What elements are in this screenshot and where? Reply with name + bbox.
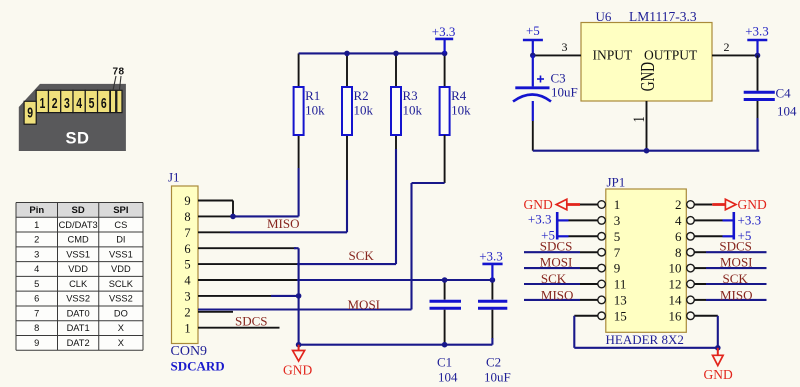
power +3.3 (C2) [479, 248, 503, 280]
node pins8-9 junction [230, 214, 236, 220]
svg-text:J1: J1 [168, 170, 180, 185]
SD card icon [19, 67, 126, 152]
svg-text:SCK: SCK [349, 248, 375, 263]
svg-text:MISO: MISO [267, 216, 300, 231]
svg-text:R3: R3 [403, 88, 418, 103]
svg-text:104: 104 [777, 103, 797, 118]
wire ground rail to C1 C2 [299, 344, 493, 346]
svg-text:VDD: VDD [68, 264, 88, 274]
svg-text:9: 9 [614, 261, 621, 276]
node gnd rail junction [644, 148, 650, 154]
ground symbol JP1 [713, 348, 724, 366]
svg-text:10: 10 [669, 261, 682, 276]
wire JP1 pin6 +5 [694, 235, 734, 237]
svg-text:2: 2 [52, 95, 58, 111]
wire JP1 SDCS left [524, 251, 598, 253]
wire U6 gnd pin 1 [631, 101, 649, 151]
SDCARD label [171, 359, 225, 374]
op-amp U6 LM1117-3.3 box [581, 23, 712, 102]
svg-text:CMD: CMD [68, 235, 89, 245]
svg-text:7: 7 [184, 226, 190, 240]
wire U6 ground rail [533, 150, 760, 152]
svg-text:C4: C4 [776, 85, 792, 100]
svg-text:SD: SD [66, 130, 90, 148]
svg-text:78: 78 [113, 67, 125, 78]
svg-text:U6: U6 [596, 9, 612, 24]
svg-text:6: 6 [34, 294, 39, 304]
svg-text:10k: 10k [354, 103, 374, 118]
label +5 left [541, 227, 555, 242]
svg-text:CLK: CLK [69, 279, 88, 289]
svg-text:+3.3: +3.3 [745, 24, 769, 39]
node C1 top [442, 277, 448, 283]
node output junction [755, 53, 761, 59]
power +3.3 (U6 output) [745, 24, 769, 56]
svg-text:X: X [118, 323, 124, 333]
svg-text:2: 2 [724, 40, 730, 54]
LM1117-3.3 label [629, 9, 697, 24]
svg-text:+3.3: +3.3 [432, 24, 456, 39]
svg-text:JP1: JP1 [607, 175, 626, 190]
svg-text:DO: DO [114, 308, 128, 318]
svg-text:VSS2: VSS2 [66, 294, 90, 304]
svg-text:R1: R1 [305, 88, 320, 103]
svg-text:9: 9 [34, 338, 39, 348]
wire JP1 SCK left [524, 283, 598, 285]
wire ground column [298, 248, 300, 345]
node +5 input junction [530, 53, 536, 59]
svg-text:10uF: 10uF [551, 85, 578, 100]
node R3 bus [393, 51, 399, 57]
svg-text:+5: +5 [526, 23, 540, 38]
svg-text:3: 3 [614, 213, 621, 228]
svg-text:16: 16 [669, 308, 683, 323]
connector JP1 [598, 189, 695, 332]
svg-text:4: 4 [76, 95, 82, 111]
svg-text:4: 4 [184, 274, 191, 288]
svg-text:GND: GND [283, 363, 312, 378]
svg-text:1: 1 [184, 321, 190, 335]
svg-text:10uF: 10uF [484, 370, 511, 385]
svg-text:LM1117-3.3: LM1117-3.3 [629, 9, 697, 24]
svg-text:3: 3 [64, 95, 70, 111]
wire J1 pin8 [198, 215, 233, 217]
svg-text:INPUT: INPUT [593, 47, 634, 62]
wire JP1 pin16 to gnd [694, 316, 718, 348]
svg-text:DI: DI [116, 235, 125, 245]
power +3.3 (resistor bus) [432, 24, 456, 54]
node R2 bus [344, 51, 350, 57]
svg-text:14: 14 [669, 293, 683, 308]
wire JP1 pin3 +3.3 [557, 219, 598, 221]
label C4 [776, 85, 798, 118]
svg-text:11: 11 [614, 277, 627, 292]
label SCK left [541, 271, 567, 286]
node C1 bottom [442, 342, 448, 348]
svg-text:MOSI: MOSI [720, 255, 753, 270]
svg-text:SDCS: SDCS [719, 239, 752, 254]
label SDCS left [540, 239, 573, 254]
svg-text:4: 4 [34, 264, 39, 274]
wire JP1 pin15 to gnd [574, 316, 718, 348]
svg-text:10k: 10k [403, 103, 423, 118]
svg-text:X: X [118, 338, 124, 348]
wire J1 pin3 to ground column [198, 295, 299, 297]
svg-text:DAT2: DAT2 [67, 338, 90, 348]
svg-text:MISO: MISO [541, 287, 574, 302]
power +5 [523, 23, 543, 55]
svg-text:OUTPUT: OUTPUT [644, 47, 698, 62]
node JP1 gnd junction [715, 345, 721, 351]
label MISO [267, 216, 300, 231]
svg-text:HEADER 8X2: HEADER 8X2 [606, 332, 684, 347]
svg-text:SCK: SCK [723, 271, 749, 286]
svg-text:GND: GND [637, 62, 659, 91]
label C3 [551, 71, 578, 100]
svg-text:8: 8 [184, 210, 190, 224]
svg-text:DAT1: DAT1 [67, 323, 90, 333]
ground symbol J1 [293, 345, 305, 361]
connector J1 [172, 186, 199, 344]
wire +3.3 bus over resistors [299, 52, 445, 54]
svg-text:SD: SD [72, 205, 85, 216]
label MOSI left [540, 255, 573, 270]
wire JP1 MOSI left [524, 267, 598, 269]
svg-text:MOSI: MOSI [540, 255, 573, 270]
power bar right [732, 212, 735, 240]
capacitor C1 [430, 280, 462, 345]
svg-text:GND: GND [524, 197, 553, 212]
svg-text:3: 3 [184, 290, 190, 304]
svg-text:15: 15 [614, 308, 627, 323]
capacitor C3 polarized [513, 55, 551, 150]
label +3.3 right [738, 213, 762, 228]
svg-text:1: 1 [631, 116, 649, 122]
resistor R1 [294, 53, 326, 135]
wire JP1 pin1 GND [556, 199, 598, 210]
wire J1 pin6 to ground column [198, 247, 299, 249]
wire JP1 pin2 GND [694, 199, 736, 210]
wire SDCS stub (pin1) [198, 327, 280, 329]
svg-text:VDD: VDD [111, 264, 131, 274]
wire JP1 SCK right [694, 283, 766, 285]
JP1 label [607, 175, 626, 190]
label +5 right [738, 228, 752, 243]
svg-text:2: 2 [34, 235, 39, 245]
label GND [283, 363, 312, 378]
svg-text:5: 5 [184, 258, 190, 272]
svg-text:SDCS: SDCS [235, 314, 268, 329]
wire JP1 MISO left [524, 299, 598, 301]
svg-text:GND: GND [704, 367, 733, 382]
svg-text:VSS1: VSS1 [66, 249, 90, 259]
svg-text:9: 9 [27, 105, 33, 121]
label GND right [738, 197, 767, 212]
svg-text:SDCS: SDCS [540, 239, 573, 254]
resistor R3 [391, 53, 423, 135]
wire JP1 pin5 +5 [557, 235, 598, 237]
label C2 [484, 355, 511, 385]
svg-text:VSS2: VSS2 [109, 294, 133, 304]
CON9 label [171, 344, 208, 359]
svg-text:2: 2 [675, 197, 682, 212]
node C2 top [490, 277, 496, 283]
label GND left [524, 197, 553, 212]
svg-text:R4: R4 [451, 88, 467, 103]
svg-text:SPI: SPI [113, 205, 128, 216]
label C1 [437, 355, 458, 385]
svg-text:13: 13 [614, 293, 627, 308]
svg-text:1: 1 [39, 95, 45, 111]
svg-text:5: 5 [89, 95, 95, 111]
svg-text:+3.3: +3.3 [528, 212, 552, 227]
svg-text:+3.3: +3.3 [738, 213, 762, 228]
svg-text:SCLK: SCLK [109, 279, 134, 289]
svg-text:7: 7 [34, 308, 39, 318]
label GND bottom [704, 367, 733, 382]
node ground rail junction [296, 342, 302, 348]
wire MISO (pin7 to R2) [198, 135, 347, 232]
wire U6 input pin 3 [533, 40, 581, 55]
label MOSI right [720, 255, 753, 270]
svg-text:MOSI: MOSI [348, 297, 381, 312]
svg-text:C1: C1 [437, 355, 452, 370]
label SDCS [235, 314, 268, 329]
svg-text:7: 7 [614, 245, 621, 260]
node R4 bus [442, 51, 448, 57]
wire JP1 MISO right [694, 299, 766, 301]
wire net to R1 [233, 135, 299, 216]
wire JP1 MOSI right [694, 267, 766, 269]
svg-text:8: 8 [34, 323, 39, 333]
svg-text:CD/DAT3: CD/DAT3 [59, 220, 98, 230]
svg-text:10k: 10k [451, 103, 471, 118]
svg-text:5: 5 [34, 279, 39, 289]
wire +3.3 net (pin4 to C1 C2) [198, 279, 492, 281]
label MISO left [541, 287, 574, 302]
node pin3 ground junction [296, 293, 302, 299]
svg-text:1: 1 [34, 220, 39, 230]
svg-text:SCK: SCK [541, 271, 567, 286]
wire SCK (pin5 to R3) [198, 135, 396, 264]
capacitor C4 [744, 55, 775, 150]
SD pin table [16, 203, 143, 351]
svg-text:5: 5 [614, 229, 621, 244]
resistor R4 [440, 53, 472, 135]
svg-text:9: 9 [184, 194, 190, 208]
svg-text:SDCARD: SDCARD [171, 359, 225, 374]
wire U6 output pin 2 [712, 40, 758, 55]
power bar left [556, 212, 559, 240]
svg-text:6: 6 [101, 95, 107, 111]
wire JP1 SDCS right [694, 251, 766, 253]
label +3.3 left [528, 212, 552, 227]
resistor R2 [342, 53, 374, 135]
wire MOSI (pin2 to R4) [198, 310, 412, 312]
svg-text:Pin: Pin [29, 205, 44, 216]
label SCK [349, 248, 375, 263]
svg-text:2: 2 [184, 305, 190, 319]
capacitor C2 [478, 280, 507, 345]
svg-text:C2: C2 [486, 355, 501, 370]
label MISO right [720, 287, 753, 302]
svg-text:6: 6 [675, 229, 682, 244]
svg-text:MISO: MISO [720, 287, 753, 302]
svg-text:VSS1: VSS1 [109, 249, 133, 259]
wire JP1 pin4 +3.3 [694, 219, 734, 221]
HEADER 8X2 label [606, 332, 684, 347]
svg-text:CON9: CON9 [171, 344, 208, 359]
svg-text:6: 6 [184, 242, 190, 256]
svg-text:10k: 10k [305, 103, 325, 118]
svg-text:C3: C3 [551, 71, 566, 86]
J1 label [168, 170, 180, 185]
svg-text:104: 104 [438, 370, 458, 385]
svg-text:4: 4 [675, 213, 682, 228]
svg-text:GND: GND [738, 197, 767, 212]
svg-text:DAT0: DAT0 [67, 308, 90, 318]
wire R4 to MOSI [412, 135, 445, 310]
label SDCS right [719, 239, 752, 254]
svg-text:8: 8 [675, 245, 682, 260]
svg-text:3: 3 [34, 249, 39, 259]
svg-text:+3.3: +3.3 [479, 248, 503, 263]
svg-text:CS: CS [114, 220, 127, 230]
svg-text:R2: R2 [354, 88, 369, 103]
wire J1 pin9 [198, 201, 233, 217]
U6 label [596, 9, 612, 24]
label MOSI [348, 297, 381, 312]
label SCK right [723, 271, 749, 286]
svg-text:1: 1 [614, 197, 621, 212]
svg-text:3: 3 [562, 40, 568, 54]
svg-text:12: 12 [669, 277, 682, 292]
